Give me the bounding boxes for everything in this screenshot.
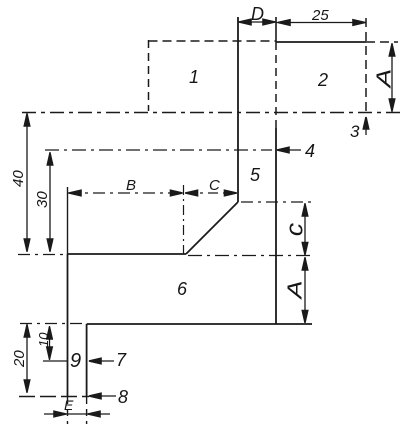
inner edge dashed tail [86,397,88,424]
stem right edge: solid lower part [275,128,277,324]
dimension E arrowheads [54,411,66,416]
dimension B dash-dot line [68,192,182,194]
extension dash-dot right of edge [188,255,315,257]
svg-text:A: A [284,280,307,300]
svg-text:6: 6 [177,279,188,299]
dimension C dash-dot line [185,192,237,194]
stem right edge: hidden dashed part [275,42,277,128]
dash-dot extension from chamfer top [241,201,315,203]
svg-text:B: B [126,177,136,194]
dimension 30 line [49,152,51,252]
svg-text:40: 40 [10,170,27,187]
centre line 4 dash-dot [45,149,272,151]
svg-text:2: 2 [317,70,328,90]
extension dash-dot vertical at B/C junction [183,185,185,254]
left edge dashed tail [67,397,69,424]
bottom edge of block 6 [87,323,312,325]
svg-text:7: 7 [116,350,127,370]
dimension E line [44,413,110,415]
dimension 20 arrowheads [24,325,29,337]
main horizontal edge [68,253,187,255]
svg-text:8: 8 [118,387,128,407]
rect2 right dashed edge [365,18,367,116]
dimension 10 line [49,326,51,360]
svg-text:c: c [282,222,309,236]
dimension 30 arrowheads [47,153,52,165]
svg-text:1: 1 [189,67,199,87]
svg-text:C: C [209,177,220,194]
extension dash-dot left of block 6 bottom [20,323,87,325]
bottom edge line 8 [19,396,89,398]
svg-text:4: 4 [305,141,315,161]
top dashed extension right of rect 2 [366,41,398,43]
svg-text:3: 3 [350,122,360,141]
dimension 40 arrowheads [24,114,29,126]
dimension A top right line [391,43,393,112]
left edge vertical of block 6 [67,254,69,397]
pointer arrow for 3 [363,117,368,129]
dimension c arrowheads [302,204,307,216]
pointer arrow for 4 [277,147,289,152]
left extension vertical above edge [67,187,69,254]
extension dash-dot left of edge [18,254,68,256]
pointer arrow for 8 [89,393,101,398]
svg-text:A: A [373,69,395,90]
dimension 25 arrowheads [278,20,290,25]
dimension A top arrowheads [389,44,394,56]
top solid edge of rect 2 [276,41,366,43]
diagonal chamfer edge [186,202,238,254]
dimension 20 line [26,324,28,393]
svg-text:D: D [251,4,264,24]
dimension 25 line [276,22,366,24]
dimension 10 arrowheads [47,327,52,339]
stem right edge: solid top [275,17,277,42]
svg-text:E: E [64,397,74,413]
svg-text:30: 30 [34,191,51,208]
pointer arrow for 7 [89,358,101,363]
svg-text:25: 25 [311,7,329,24]
dimension c right line [304,203,306,255]
bottom dashed line of rects / extension [22,112,405,114]
dimension A lower right line [304,257,306,323]
dimension 40 line [26,113,28,252]
dimension B arrowheads [69,190,81,195]
dimension A lower arrowheads [302,258,307,270]
top dashed line of rect 1 [149,40,277,42]
rect1 left dashed edge [148,40,150,111]
dimension C arrowheads [186,190,198,195]
svg-text:20: 20 [11,350,28,368]
inner edge vertical of notch [86,324,88,397]
svg-text:5: 5 [250,165,261,185]
svg-text:10: 10 [36,332,51,347]
dimension D line [238,21,276,23]
stem left solid edge [237,17,239,202]
svg-text:9: 9 [70,350,81,372]
tick line for 10 [43,360,67,362]
dimension D arrowheads [239,19,251,24]
